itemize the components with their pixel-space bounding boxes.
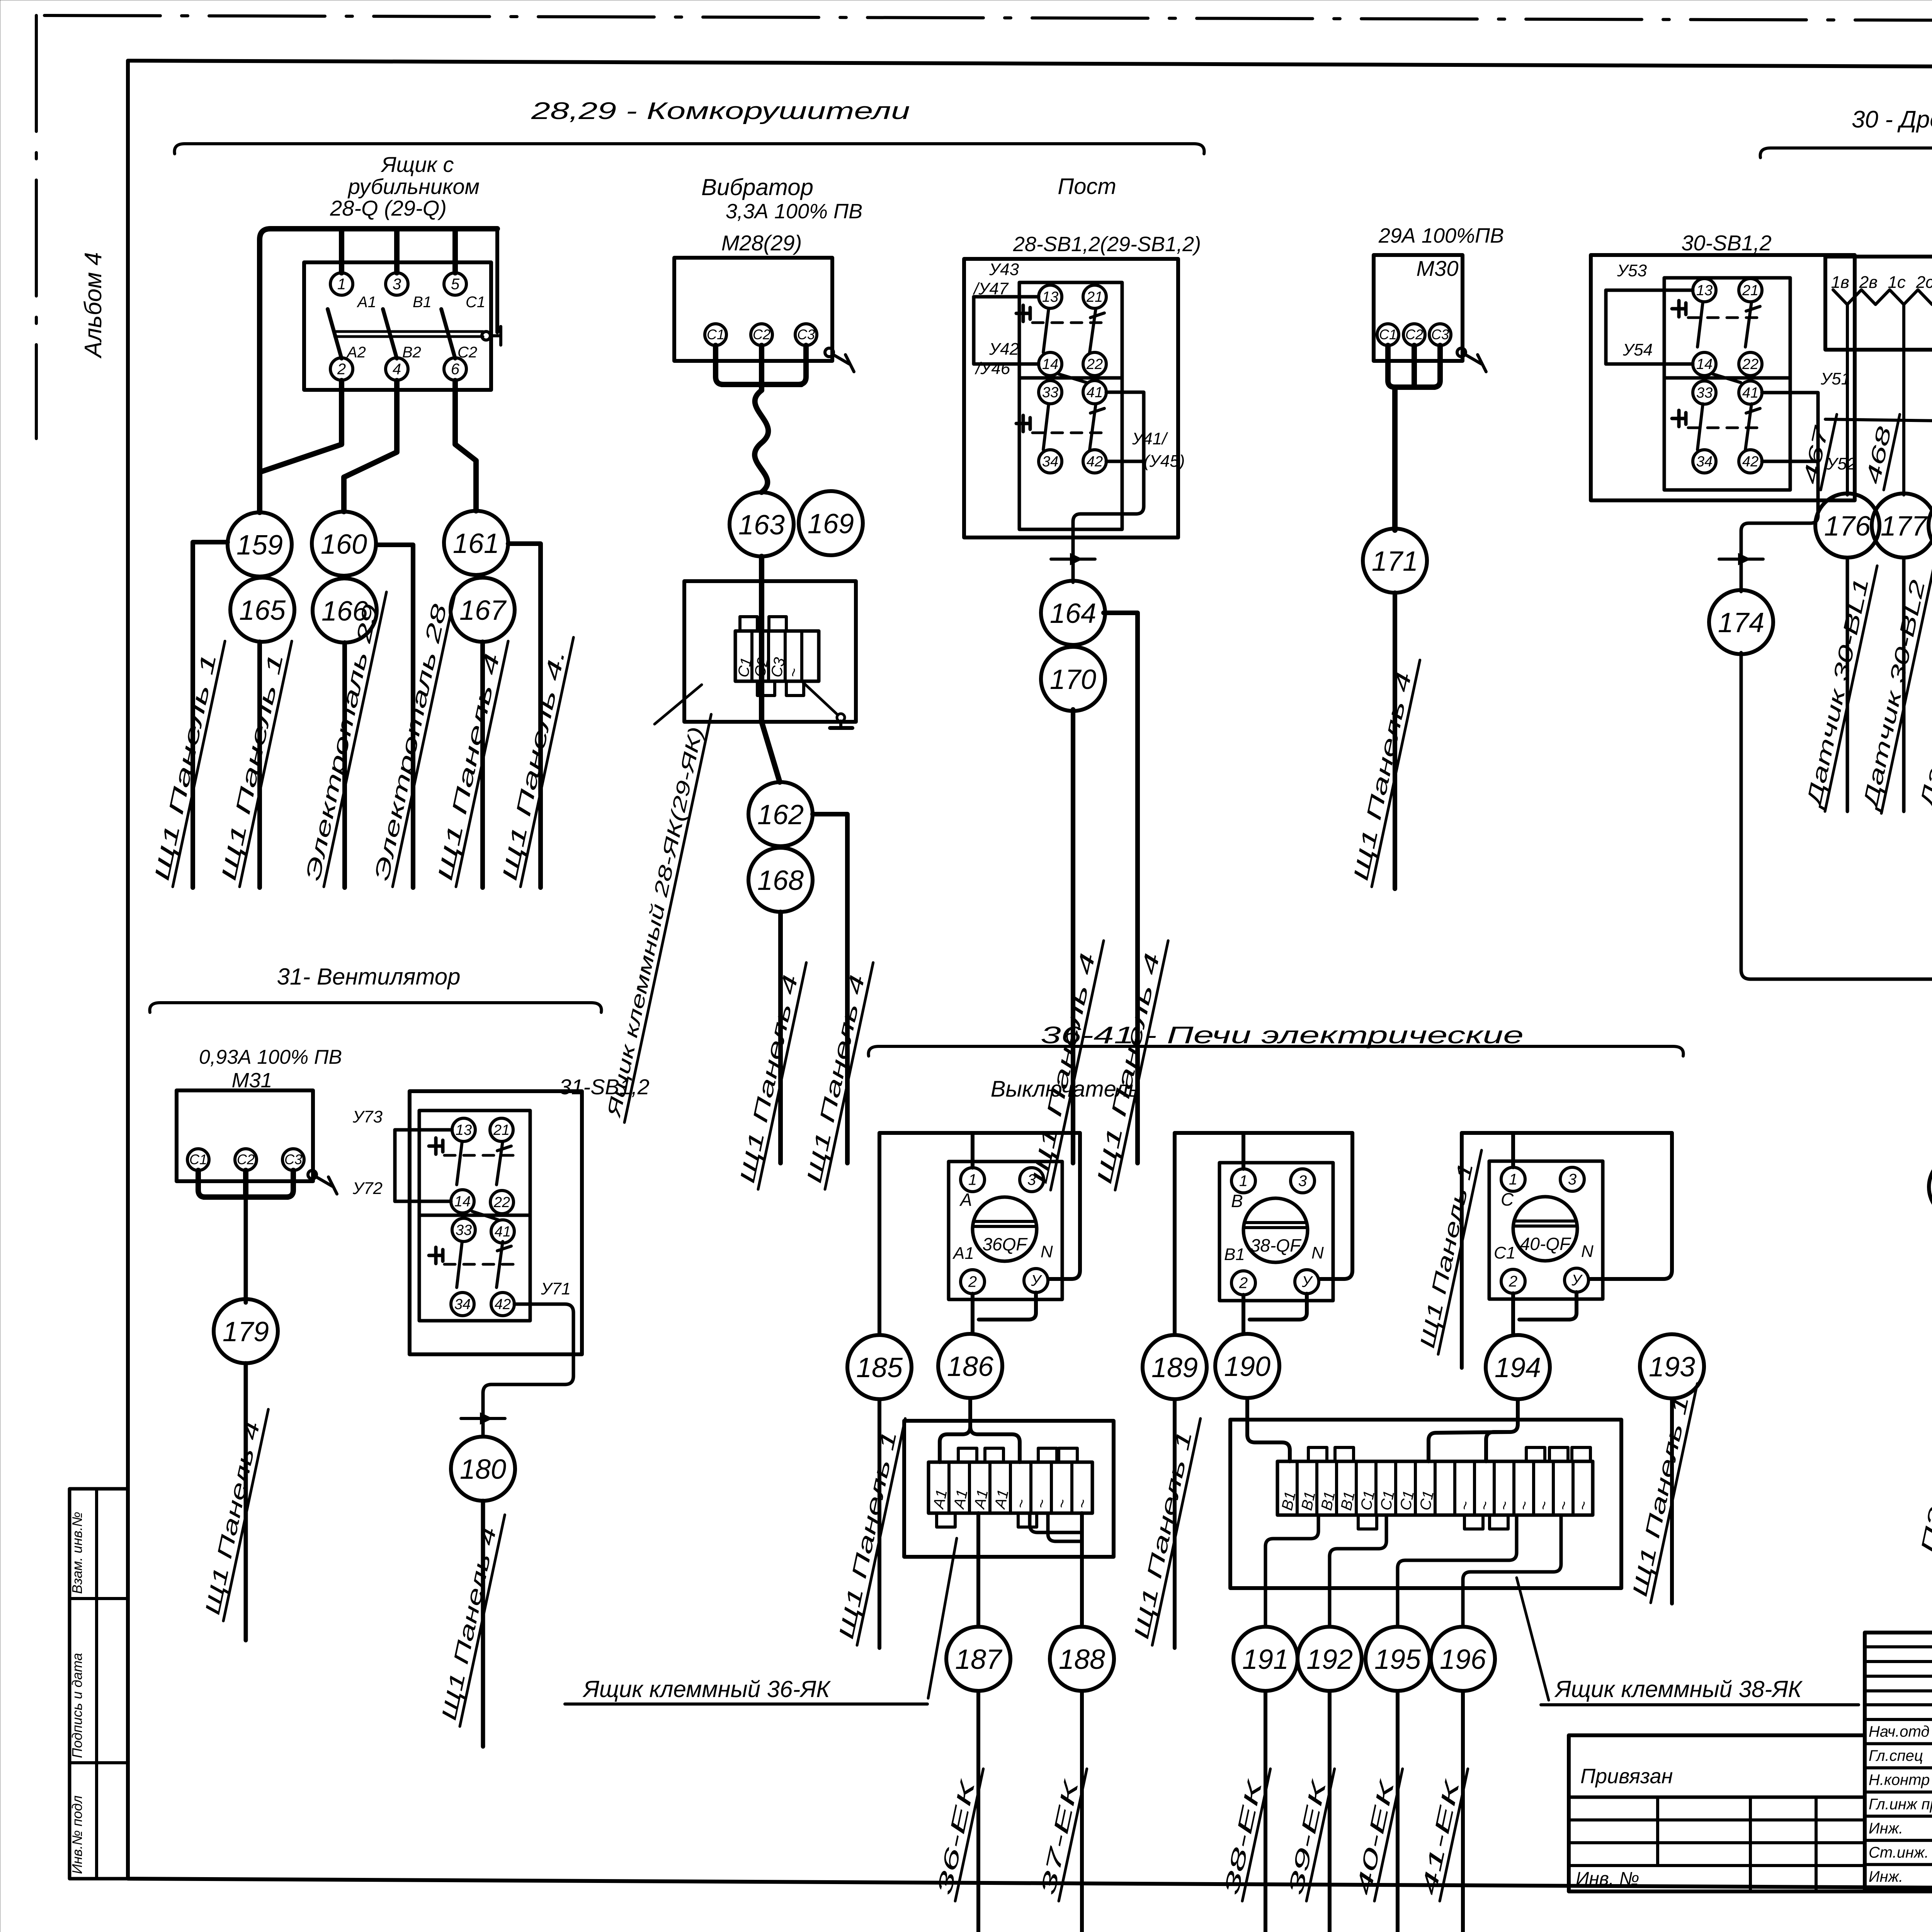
svg-text:21: 21 — [1742, 282, 1759, 299]
svg-text:21: 21 — [493, 1122, 510, 1138]
svg-text:31- Вентилятор: 31- Вентилятор — [277, 964, 460, 990]
wires strip bottoms merge to 192 — [1330, 1515, 1386, 1626]
svg-text:1с: 1с — [1888, 273, 1905, 292]
svg-text:164: 164 — [1050, 598, 1096, 629]
wire from terminal 6 to cable 161 — [455, 381, 476, 511]
sheet border dash-dot top — [44, 15, 1932, 22]
svg-text:38-QF: 38-QF — [1250, 1235, 1302, 1255]
contact 22 30-SB — [1739, 352, 1762, 376]
wire label 468 — [1861, 410, 1900, 490]
svg-text:/У46: /У46 — [975, 359, 1010, 378]
contact 33 — [1039, 381, 1062, 404]
wire 190 to box 38-ЯК — [1245, 1399, 1249, 1420]
svg-text:А: А — [959, 1190, 972, 1210]
push-button block 30-SB inner — [1664, 278, 1790, 490]
shield arrow 180 — [461, 1417, 505, 1420]
terminal 2 — [330, 358, 353, 380]
cable circle 193 — [1640, 1334, 1704, 1398]
wire N jog 38-QF — [1250, 1294, 1307, 1320]
terminal box 28-ЯК outline — [684, 581, 856, 722]
contact blades top 31-SB — [457, 1141, 462, 1185]
circuit breaker 40-QF box — [1489, 1161, 1603, 1299]
svg-text:162: 162 — [757, 799, 804, 830]
wire 186 split inside 36-ЯК — [940, 1421, 970, 1462]
svg-text:14: 14 — [1696, 356, 1713, 372]
svg-text:28-Q (29-Q): 28-Q (29-Q) — [330, 196, 447, 220]
cable circle 187 — [946, 1627, 1010, 1691]
svg-text:160: 160 — [321, 529, 367, 560]
terminal strip 38-ЯК — [1277, 1461, 1593, 1515]
svg-text:1: 1 — [1509, 1171, 1517, 1188]
svg-text:0,93А 100% ПВ: 0,93А 100% ПВ — [199, 1046, 342, 1068]
svg-text:У72: У72 — [352, 1179, 383, 1198]
wire branch line 4 to Электроталь 28 — [377, 545, 413, 888]
terminal 3 40-QF — [1560, 1167, 1584, 1191]
contact blades bottom 28-SB — [1043, 404, 1049, 450]
svg-text:А2: А2 — [346, 344, 366, 361]
svg-text:159: 159 — [236, 530, 283, 561]
frame bottom edge — [128, 1879, 1932, 1891]
svg-text:3: 3 — [1298, 1173, 1307, 1190]
contact 14 31-SB — [451, 1190, 474, 1213]
wire 162 branch right — [813, 814, 847, 1163]
wire label Датчик 30-ВL1 — [1801, 561, 1877, 811]
wire below 167 — [480, 642, 485, 888]
wire branch line 1 to Щ1 Панель 1 — [193, 542, 228, 888]
svg-text:42: 42 — [1087, 454, 1103, 470]
motor terminal C1 М31 — [187, 1149, 209, 1170]
wires strip bottoms merge to 196 — [1463, 1515, 1561, 1626]
wire strip to 187 — [976, 1513, 980, 1626]
svg-text:С: С — [1501, 1189, 1514, 1209]
svg-text:Инж.: Инж. — [1869, 1868, 1903, 1885]
svg-text:1в: 1в — [1831, 273, 1849, 292]
strip tabs 38-ЯК top — [1308, 1447, 1327, 1461]
wire 185 below — [878, 1400, 881, 1648]
wire bus right corner to N 40-QF — [1589, 1133, 1672, 1279]
terminal 1 36QF — [961, 1168, 985, 1192]
left margin table (Инв.№ подл / Подпись и дата / Взам.инв.№) — [70, 1489, 128, 1879]
svg-text:N: N — [1311, 1243, 1324, 1262]
wire label Щ1 Панель 1 (189) — [1129, 1413, 1200, 1645]
Привязан table — [1569, 1735, 1865, 1891]
strip tabs 36-ЯК bottom — [937, 1513, 955, 1527]
svg-text:Нач.отд: Нач.отд — [1869, 1723, 1930, 1740]
svg-text:Ст.инж.: Ст.инж. — [1869, 1844, 1929, 1861]
knife switch box 28-Q — [304, 262, 491, 390]
svg-text:13: 13 — [1696, 282, 1713, 299]
svg-text:N: N — [1041, 1242, 1053, 1261]
terminal 4/N 36QF — [1024, 1269, 1048, 1293]
wire label 41-ЕК — [1416, 1764, 1468, 1901]
wire left bus 30-SB — [1604, 290, 1608, 364]
svg-text:6: 6 — [451, 361, 460, 378]
svg-text:С2: С2 — [753, 327, 770, 342]
svg-text:191: 191 — [1242, 1644, 1289, 1675]
wire 187 below — [976, 1691, 980, 1932]
button actuator top 28-SB — [1022, 305, 1025, 321]
pump motor box М30 — [1374, 255, 1463, 361]
motor terminal C3 М30 — [1429, 324, 1451, 345]
wire from terminal 4 to cable 160 — [344, 381, 397, 512]
handle М28 — [825, 348, 833, 357]
svg-text:2: 2 — [968, 1274, 977, 1291]
push-button post box 31-SB outer — [410, 1091, 582, 1354]
svg-text:186: 186 — [947, 1351, 994, 1382]
contact 42 31-SB — [491, 1293, 514, 1316]
svg-text:В1: В1 — [1224, 1245, 1245, 1264]
wire label Щ1 Панель 4 (162) — [735, 957, 806, 1189]
cable circle 171 — [1363, 529, 1427, 593]
contact 41 — [1083, 381, 1106, 404]
svg-text:В: В — [1231, 1191, 1243, 1211]
cable circle 189 — [1143, 1335, 1207, 1399]
wire label 39-ЕК — [1283, 1764, 1334, 1901]
wire 194 inside 38-ЯК — [1486, 1420, 1518, 1461]
svg-text:/У47: /У47 — [973, 279, 1009, 298]
svg-text:196: 196 — [1440, 1644, 1486, 1675]
svg-text:190: 190 — [1224, 1351, 1270, 1382]
svg-text:30-SB1,2: 30-SB1,2 — [1681, 231, 1772, 255]
wires strip bottoms merge to 195 — [1398, 1515, 1517, 1626]
svg-text:3: 3 — [1568, 1171, 1577, 1188]
terminal 4 — [386, 358, 408, 380]
svg-text:А1: А1 — [952, 1244, 974, 1263]
svg-text:33: 33 — [1696, 385, 1713, 401]
wire bus left down (Щ1 Панель 1) — [1460, 1133, 1464, 1368]
wire label Электроталь 29 — [300, 587, 386, 887]
wire 190 inside 38-ЯК — [1247, 1420, 1290, 1461]
svg-text:176: 176 — [1824, 511, 1871, 542]
wire below 177 — [1902, 558, 1906, 811]
electronic block 30-BL box — [1825, 257, 1932, 350]
contact 22 31-SB — [490, 1190, 514, 1214]
svg-text:4: 4 — [393, 361, 401, 378]
contact blades top 30-SB — [1697, 302, 1703, 347]
svg-text:Н.контр: Н.контр — [1869, 1772, 1930, 1789]
wire below 180 — [481, 1501, 485, 1747]
wire 189 below — [1173, 1400, 1177, 1648]
wire label Электроталь 28 — [369, 587, 455, 887]
svg-text:189: 189 — [1151, 1352, 1198, 1383]
svg-text:22: 22 — [1742, 356, 1759, 372]
wire bus right corner to N 36QF — [1049, 1133, 1080, 1279]
switch linkage bar — [335, 330, 483, 333]
cable circle 173 — [1929, 1155, 1932, 1219]
wire through strip — [759, 582, 764, 722]
wire right 41-42 30-SB — [1762, 393, 1818, 461]
album label Альбом 4 — [80, 252, 107, 359]
wire 2 down 40-QF — [1511, 1293, 1515, 1333]
contact 21 30-SB — [1739, 279, 1762, 302]
wire bus right drop to handle — [495, 229, 499, 332]
svg-text:У53: У53 — [1617, 261, 1647, 280]
supply bus 38-QF — [1175, 1131, 1352, 1135]
svg-text:С1: С1 — [1379, 327, 1397, 342]
contact 13 31-SB — [452, 1118, 475, 1141]
wire taps into terminals 1 3 5 — [339, 229, 344, 273]
wire label Щ1 Панель 1 (line 165) — [216, 636, 292, 887]
svg-text:Инв. №: Инв. № — [1576, 1869, 1639, 1889]
svg-text:22: 22 — [1086, 356, 1103, 372]
cable circle 167 — [451, 578, 515, 642]
frame top edge — [128, 61, 1932, 69]
svg-text:14: 14 — [1042, 356, 1058, 372]
svg-text:У43: У43 — [989, 260, 1019, 279]
contact 34 — [1039, 450, 1062, 473]
wire 194 to box 38-ЯК — [1516, 1400, 1520, 1420]
svg-text:185: 185 — [856, 1352, 903, 1383]
svg-text:171: 171 — [1372, 546, 1418, 577]
wire 174 to terminal box 30-ЯК — [1741, 653, 1932, 979]
supply bus 36QF — [879, 1131, 1080, 1135]
svg-text:41: 41 — [1742, 385, 1759, 401]
wire 2 down 36QF — [971, 1294, 975, 1333]
cable circle 162 — [748, 782, 813, 846]
dashed linkage top 31-SB — [444, 1154, 514, 1157]
wire label 467 — [1798, 410, 1837, 490]
svg-text:30 - Дренажный: 30 - Дренажный — [1852, 106, 1932, 133]
wire label Щ1 Панель 4 (164) — [1092, 936, 1168, 1190]
breaker dial 38-QF — [1243, 1198, 1308, 1262]
contact 13 30-SB — [1693, 279, 1716, 302]
svg-text:Гл.инж пр: Гл.инж пр — [1869, 1796, 1932, 1813]
svg-text:3,3А 100% ПВ: 3,3А 100% ПВ — [726, 200, 862, 223]
wire label Щ1 Панель 4 (171) — [1348, 655, 1420, 887]
personnel table grid — [1865, 1633, 1932, 1891]
svg-text:Инв.№ подл: Инв.№ подл — [69, 1796, 85, 1874]
wire N jog 36QF — [979, 1293, 1036, 1320]
svg-text:165: 165 — [239, 595, 286, 626]
contact blades bottom 30-SB — [1697, 404, 1703, 450]
circuit breaker 36QF box — [949, 1162, 1062, 1299]
wire 191 below — [1264, 1691, 1267, 1932]
breaker dial 36QF — [973, 1197, 1037, 1261]
terminal 1 38-QF — [1231, 1169, 1255, 1193]
svg-text:Взам. инв.№: Взам. инв.№ — [69, 1512, 85, 1594]
motor terminal C3 — [795, 324, 817, 345]
svg-text:3: 3 — [1027, 1172, 1036, 1189]
wire label Щ1 Панель 4 (line 161) — [432, 636, 508, 887]
circuit breaker 38-QF box — [1219, 1163, 1333, 1301]
contact 22 — [1083, 352, 1106, 376]
wire supply bus to 28-Q — [260, 229, 497, 512]
switch handle 28-Q — [482, 332, 490, 340]
svg-text:У54: У54 — [1622, 340, 1653, 359]
wire branch line 6 to Щ1 Панель 4 — [508, 544, 541, 888]
terminal sawtooth row 30-BL — [1833, 290, 1932, 304]
cable circle 161 — [444, 511, 508, 575]
button actuator top 31-SB — [434, 1138, 438, 1154]
contact 13 — [1039, 285, 1062, 308]
svg-text:42: 42 — [495, 1296, 511, 1313]
motor terminal C2 — [751, 324, 772, 345]
button actuator bottom 28-SB — [1022, 415, 1025, 432]
handle М31 — [308, 1170, 316, 1179]
leader 38-ЯК label — [1517, 1578, 1549, 1700]
wire label 469 — [1925, 410, 1932, 490]
sensor cable circle 178 — [1929, 493, 1932, 558]
wire label П2 — [1915, 1490, 1932, 1559]
motor terminal C1 — [705, 324, 726, 345]
contact 14 — [1039, 352, 1062, 376]
svg-text:Вибратор: Вибратор — [701, 174, 813, 200]
terminal box 38-ЯК outline — [1230, 1420, 1621, 1588]
svg-text:1: 1 — [968, 1172, 977, 1189]
switch blade C — [441, 309, 455, 359]
svg-text:195: 195 — [1374, 1644, 1421, 1675]
motor terminal C2 М31 — [235, 1149, 257, 1170]
terminal box 36-ЯК outline — [904, 1421, 1114, 1557]
contact 41 30-SB — [1739, 381, 1762, 404]
svg-text:34: 34 — [1696, 454, 1713, 470]
wire bus left down to 189 — [1173, 1133, 1177, 1334]
svg-text:188: 188 — [1059, 1644, 1105, 1675]
cable circle 170 — [1041, 647, 1105, 711]
svg-text:Альбом 4: Альбом 4 — [80, 252, 107, 359]
svg-text:У52: У52 — [1826, 454, 1856, 473]
svg-text:С3: С3 — [284, 1151, 302, 1167]
svg-text:193: 193 — [1649, 1352, 1695, 1383]
wire 30-SB to 174 — [1741, 461, 1818, 592]
svg-text:У: У — [1301, 1274, 1313, 1291]
svg-text:5: 5 — [451, 276, 460, 293]
dashed linkage top 30-SB — [1688, 316, 1762, 319]
wire below 176 — [1846, 558, 1849, 811]
breaker dial 40-QF — [1513, 1197, 1577, 1261]
cable circle 168 — [748, 848, 813, 912]
svg-text:28,29 - Комкорушители: 28,29 - Комкорушители — [531, 98, 910, 124]
svg-text:40-QF: 40-QF — [1520, 1234, 1571, 1254]
wire bus to terminal 1 40-QF — [1511, 1133, 1515, 1167]
svg-text:170: 170 — [1050, 664, 1096, 695]
svg-text:34: 34 — [454, 1296, 471, 1313]
terminal 5 — [444, 273, 466, 295]
wire label Щ1 Панель 1 (line 159) — [149, 636, 225, 887]
leader 36-ЯК label — [928, 1538, 957, 1698]
svg-text:41: 41 — [495, 1224, 511, 1240]
cable circle 195 — [1366, 1627, 1430, 1691]
svg-text:рубильником: рубильником — [347, 174, 480, 199]
cable circle 163 — [730, 492, 794, 556]
strip tabs 28-ЯК — [740, 617, 757, 631]
wire label Щ1 Панель 4 (line 167) — [497, 633, 573, 887]
cable circle 188 — [1050, 1627, 1114, 1691]
svg-text:2: 2 — [337, 361, 346, 378]
terminal 2 38-QF — [1231, 1271, 1255, 1295]
svg-text:В2: В2 — [402, 344, 421, 361]
wire label 38-ЕК — [1219, 1764, 1270, 1901]
svg-text:Подпись и дата: Подпись и дата — [69, 1653, 85, 1758]
wire bus left down to 185 — [878, 1133, 881, 1334]
wire bus to terminal 1 36QF — [971, 1133, 975, 1168]
vibrator motor box М28 — [674, 258, 832, 361]
terminal 3 36QF — [1020, 1168, 1044, 1192]
contact 42 — [1083, 450, 1106, 473]
label Ящик клеммный 28-ЯК(29-ЯК) rotated — [602, 709, 711, 1122]
svg-text:36QF: 36QF — [982, 1234, 1028, 1254]
fan motor box М31 — [177, 1090, 313, 1181]
terminal strip 28-ЯК — [735, 631, 819, 681]
svg-text:42: 42 — [1742, 454, 1759, 470]
group bracket 30 — [1760, 148, 1932, 158]
switch blade B — [383, 309, 397, 359]
svg-text:192: 192 — [1306, 1644, 1353, 1675]
svg-text:Выключатель: Выключатель — [991, 1077, 1140, 1102]
svg-text:2: 2 — [1509, 1273, 1517, 1290]
svg-text:1: 1 — [337, 276, 346, 293]
cable circle 169 — [799, 491, 863, 555]
svg-text:187: 187 — [955, 1644, 1003, 1675]
wire label Щ1 Панель 1 (40QF supply) — [1415, 1145, 1481, 1354]
cable circle 185 — [847, 1335, 912, 1399]
contact 21 31-SB — [490, 1118, 513, 1141]
wire 163 to terminal box — [759, 556, 764, 582]
cable circle 190 — [1215, 1334, 1279, 1398]
svg-text:2в: 2в — [1859, 273, 1878, 292]
frame left edge — [126, 61, 130, 1879]
terminal 1 — [330, 273, 353, 295]
push-button post box 28-SB1,2 outer — [964, 259, 1178, 537]
cable circle 179 — [214, 1299, 278, 1363]
svg-text:169: 169 — [808, 509, 854, 539]
cable circle 166 — [313, 578, 377, 643]
crossover link 28-SB — [1059, 374, 1087, 383]
svg-text:А1: А1 — [357, 294, 376, 311]
svg-text:С2: С2 — [237, 1151, 255, 1167]
svg-text:179: 179 — [223, 1316, 269, 1347]
cable circle 160 — [312, 512, 376, 576]
wire right 42 У71 — [483, 1304, 573, 1436]
album spine dash-dot left — [35, 15, 38, 439]
push-button block 31-SB inner — [419, 1111, 530, 1321]
wire bus right corner to N 38-QF — [1320, 1133, 1352, 1279]
contact 14 30-SB — [1693, 352, 1716, 376]
contact 41 31-SB — [491, 1220, 514, 1243]
wire label Щ1 Панель 1 (193) — [1627, 1379, 1697, 1603]
cable circle 194 — [1486, 1335, 1550, 1399]
svg-text:Ящик клеммный 36-ЯК: Ящик клеммный 36-ЯК — [582, 1676, 831, 1702]
svg-text:180: 180 — [460, 1454, 506, 1485]
wire below 165 — [257, 642, 262, 888]
wire 195 below — [1396, 1691, 1400, 1932]
svg-text:Пост: Пост — [1058, 174, 1116, 199]
svg-text:29А 100%ПВ: 29А 100%ПВ — [1378, 224, 1504, 247]
handle М30 — [1457, 348, 1466, 357]
svg-text:Ящик с: Ящик с — [381, 152, 454, 177]
svg-text:14: 14 — [454, 1194, 471, 1210]
cable coil loop — [755, 390, 768, 492]
motor terminal C1 М30 — [1377, 324, 1399, 345]
svg-text:С1: С1 — [466, 294, 485, 311]
wire 196 below — [1461, 1691, 1465, 1932]
wire 194 branch inside 38-ЯК — [1429, 1432, 1510, 1461]
svg-text:С3: С3 — [1431, 327, 1449, 342]
svg-text:2: 2 — [1239, 1275, 1248, 1292]
svg-text:У71: У71 — [541, 1279, 571, 1298]
wire label 36-ЕК — [932, 1764, 983, 1901]
cable circle 196 — [1431, 1627, 1495, 1691]
wires strip bottoms merge to 191 — [1265, 1515, 1318, 1626]
svg-text:168: 168 — [757, 865, 804, 896]
contact 42 30-SB — [1739, 450, 1762, 473]
svg-text:Ящик клеммный 38-ЯК: Ящик клеммный 38-ЯК — [1554, 1676, 1803, 1702]
svg-text:2с: 2с — [1916, 273, 1932, 292]
wire bus to terminal 1 38-QF — [1242, 1133, 1245, 1169]
strip tabs 38-ЯК bottom — [1358, 1515, 1377, 1529]
wires right cells merge to 188 — [1030, 1513, 1082, 1532]
svg-text:С1: С1 — [707, 327, 724, 342]
